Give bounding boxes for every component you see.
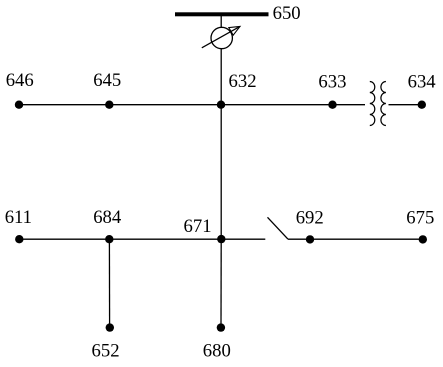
svg-text:652: 652: [92, 340, 120, 361]
svg-text:646: 646: [6, 70, 34, 91]
regulator arrowhead: [229, 26, 240, 35]
svg-text:680: 680: [203, 340, 231, 361]
svg-text:634: 634: [408, 72, 437, 93]
svg-text:675: 675: [406, 207, 434, 228]
wire 646-645-632-633 (upper horizontal): [19, 104, 365, 106]
wire 671 to 680 (vertical): [220, 239, 222, 327]
node 645: [105, 101, 113, 109]
node 671: [217, 235, 225, 243]
bus bar 650: [175, 12, 269, 16]
voltage regulator circle: [211, 27, 232, 48]
svg-text:684: 684: [93, 207, 122, 228]
node 680: [217, 323, 225, 331]
switch blade 671-692 (open): [268, 217, 289, 239]
svg-text:692: 692: [296, 207, 324, 228]
node 652: [106, 323, 114, 331]
node 611: [15, 235, 23, 243]
transformer winding right (634 side): [381, 82, 386, 126]
svg-text:633: 633: [318, 72, 346, 93]
svg-text:632: 632: [229, 71, 257, 92]
wire transformer to 634: [389, 104, 423, 106]
node 633: [328, 101, 336, 109]
node 634: [418, 101, 426, 109]
node 692: [306, 235, 314, 243]
wire 684 to 652 (vertical): [108, 239, 110, 327]
transformer winding left (633 side): [370, 82, 375, 126]
svg-text:671: 671: [184, 216, 212, 237]
svg-text:650: 650: [273, 3, 301, 24]
node 632: [217, 101, 225, 109]
node 646: [15, 101, 23, 109]
svg-text:645: 645: [93, 70, 121, 91]
wire 632 to 671 (vertical): [220, 105, 222, 240]
regulator arrow shaft: [202, 27, 239, 48]
wire 611-684-671 (lower horizontal left): [19, 238, 265, 240]
node 684: [105, 235, 113, 243]
node 675: [419, 235, 427, 243]
wire 692 to 675: [288, 238, 423, 240]
svg-text:611: 611: [5, 207, 32, 228]
wire 650 to 632 (vertical feeder): [220, 16, 222, 105]
